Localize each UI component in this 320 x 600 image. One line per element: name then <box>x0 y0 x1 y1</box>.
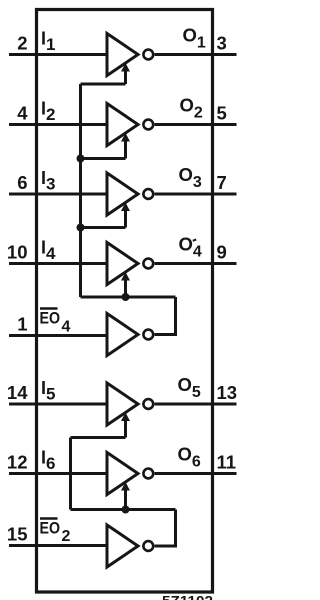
input EO2 label (with overline) <box>40 519 71 546</box>
wire input I3 (pin 6) <box>9 193 106 196</box>
enable arrow U3 <box>121 203 130 228</box>
svg-text:EO: EO <box>40 520 61 538</box>
svg-text:4: 4 <box>62 319 71 336</box>
wire output O6 (pin 11) <box>155 472 237 475</box>
wire EO2 output loop <box>155 510 176 547</box>
enable arrow U1 <box>121 63 130 84</box>
inverter U1 triangle <box>107 34 138 76</box>
wire enable bus upper (x=80.5) <box>79 84 82 297</box>
enable arrow U7 <box>121 482 130 510</box>
wire enable feed U3 <box>81 226 126 229</box>
svg-text:I4: I4 <box>41 238 56 264</box>
svg-text:14: 14 <box>7 382 28 403</box>
svg-text:15: 15 <box>7 524 28 545</box>
inverter U8 output bubble <box>143 541 153 551</box>
svg-text:O3: O3 <box>179 164 202 191</box>
svg-text:4: 4 <box>17 103 28 124</box>
svg-text:I6: I6 <box>41 448 55 474</box>
svg-text:2: 2 <box>17 33 27 54</box>
input EO4 label (with overline) <box>40 309 71 336</box>
inverter U6 output bubble <box>143 399 153 409</box>
inverter U3 output bubble <box>143 189 153 199</box>
svg-text:O2: O2 <box>180 95 203 122</box>
IC outline <box>37 10 213 593</box>
wire input I6 (pin 12) <box>9 472 106 475</box>
svg-text:O4: O4 <box>179 234 202 261</box>
svg-text:O5: O5 <box>178 374 201 401</box>
wire enable feed U2 <box>81 157 126 160</box>
inverter U5 output bubble <box>143 330 153 340</box>
inverter U1 output bubble <box>143 50 153 60</box>
wire output O4 (pin 9) <box>155 262 237 265</box>
svg-text:O1: O1 <box>183 25 206 52</box>
svg-text:2: 2 <box>62 528 71 545</box>
wire enable feed row 4 (bus corner to EO4 loop) <box>81 296 176 299</box>
wire output O3 (pin 7) <box>155 193 237 196</box>
wire input EO2 (pin 15) <box>9 544 106 547</box>
inverter U2 triangle <box>107 104 138 146</box>
inverter U7 output bubble <box>143 469 153 479</box>
wire enable feed row 7 (bus corner to EO2 loop) <box>71 508 176 511</box>
stray tick artifact after O4 <box>193 239 196 240</box>
wire input I1 (pin 2) <box>9 53 106 56</box>
inverter U3 triangle <box>107 173 138 215</box>
wire input I4 (pin 10) <box>9 262 106 265</box>
svg-text:10: 10 <box>7 242 28 263</box>
wire output O1 (pin 3) <box>155 53 237 56</box>
svg-text:13: 13 <box>217 382 238 403</box>
svg-text:9: 9 <box>217 242 227 263</box>
inverter U4 output bubble <box>143 259 153 269</box>
svg-text:7: 7 <box>217 172 227 193</box>
svg-text:3: 3 <box>217 33 227 54</box>
wire input EO4 (pin 1) <box>9 334 106 337</box>
wire enable feed U6 <box>71 436 126 439</box>
inverter U4 triangle <box>107 243 138 285</box>
svg-text:I1: I1 <box>41 29 55 55</box>
wire input I5 (pin 14) <box>9 403 106 406</box>
wire input I2 (pin 4) <box>9 123 106 126</box>
wire enable bus lower (x=70.5) <box>69 438 72 510</box>
wire output O2 (pin 5) <box>155 123 237 126</box>
enable arrow U2 <box>121 133 130 159</box>
wire EO4 output loop <box>155 297 176 335</box>
svg-text:11: 11 <box>217 452 237 473</box>
svg-text:I2: I2 <box>41 99 55 125</box>
junction dot U4 arrow / feed <box>122 293 130 301</box>
enable arrow U4 <box>121 272 130 297</box>
svg-text:O6: O6 <box>178 444 201 471</box>
inverter U7 triangle <box>107 453 138 495</box>
junction dot enable bus / U2 feed <box>77 155 85 163</box>
wire output O5 (pin 13) <box>155 403 237 406</box>
svg-text:12: 12 <box>7 452 28 473</box>
inverter U6 triangle <box>107 383 138 425</box>
svg-text:1: 1 <box>17 314 27 335</box>
junction dot enable bus / U3 feed <box>77 224 85 232</box>
wire enable feed U1 <box>81 83 126 86</box>
enable arrow U6 <box>121 413 130 438</box>
inverter U5 (EO4 buffer) triangle <box>107 314 138 356</box>
svg-text:5: 5 <box>217 103 227 124</box>
svg-text:I3: I3 <box>41 168 55 194</box>
svg-text:5Z1102: 5Z1102 <box>162 594 213 600</box>
svg-text:I5: I5 <box>41 378 55 404</box>
inverter U8 (EO2 buffer) triangle <box>107 525 138 567</box>
svg-text:6: 6 <box>17 172 27 193</box>
inverter U2 output bubble <box>143 120 153 130</box>
junction dot U7 arrow / feed <box>122 506 130 514</box>
svg-text:EO: EO <box>40 310 61 328</box>
